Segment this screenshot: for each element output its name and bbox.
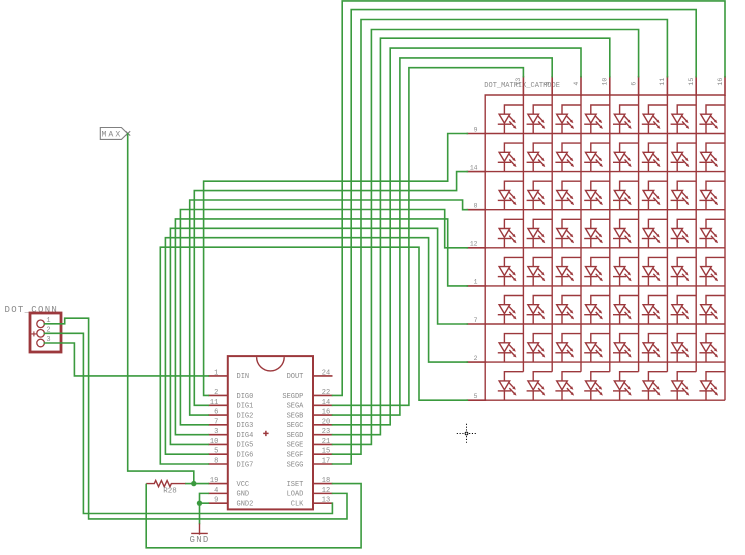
svg-text:SEGF: SEGF <box>287 452 304 460</box>
LED D11 <box>498 105 524 134</box>
LED D37 <box>671 181 697 210</box>
matrix column bus 5 <box>638 95 640 372</box>
matrix column bus 3 <box>580 95 582 372</box>
svg-text:SEGD: SEGD <box>287 432 304 440</box>
wire DIG5 to matrix row 7 <box>170 228 467 444</box>
svg-text:VCC: VCC <box>237 481 250 489</box>
LED D86 <box>642 372 668 401</box>
matrix column pin 3 <box>551 76 553 96</box>
IC pin 20 SEGC <box>313 424 333 426</box>
svg-text:1: 1 <box>474 279 478 286</box>
IC pin 21 SEGE <box>313 443 333 445</box>
LED D13 <box>555 105 581 134</box>
svg-text:CLK: CLK <box>291 500 304 508</box>
svg-text:21: 21 <box>322 438 330 446</box>
matrix row pin 14 <box>467 171 487 173</box>
matrix row pin 8 <box>467 209 487 211</box>
LED D43 <box>555 219 581 248</box>
LED D27 <box>671 143 697 172</box>
svg-text:8: 8 <box>214 458 218 466</box>
IC pin 15 SEGF <box>313 453 333 455</box>
svg-text:MAX: MAX <box>102 131 123 140</box>
IC pin 17 SEGG <box>313 463 333 465</box>
svg-text:24: 24 <box>322 369 330 377</box>
svg-text:DIN: DIN <box>237 373 250 381</box>
IC pin 18 ISET <box>313 483 333 485</box>
IC pin 6 DIG2 <box>208 414 228 416</box>
IC pin 16 SEGB <box>313 414 333 416</box>
svg-text:GND: GND <box>237 491 250 499</box>
LED D21 <box>498 143 524 172</box>
svg-text:13: 13 <box>322 497 330 505</box>
svg-text:SEGDP: SEGDP <box>282 393 303 401</box>
IC pin 4 GND <box>208 492 228 494</box>
LED D57 <box>671 257 697 286</box>
matrix row bus 6 <box>485 323 725 325</box>
svg-text:LOAD: LOAD <box>287 491 304 499</box>
svg-text:5: 5 <box>214 448 218 456</box>
svg-text:DOUT: DOUT <box>287 373 304 381</box>
IC notch <box>257 357 285 371</box>
svg-text:15: 15 <box>688 78 695 86</box>
IC pin 19 VCC <box>208 483 228 485</box>
LED D18 <box>699 105 725 134</box>
matrix column pin 15 <box>695 76 697 96</box>
matrix row bus 2 <box>485 171 725 173</box>
LED D34 <box>584 181 610 210</box>
LED D67 <box>671 296 697 325</box>
svg-text:SEGG: SEGG <box>287 461 304 469</box>
svg-text:2: 2 <box>474 355 478 362</box>
svg-text:19: 19 <box>210 477 218 485</box>
wire DIG2 to matrix row 8 <box>190 200 468 415</box>
wire R28 right to VCC dot <box>186 483 194 485</box>
DOT_CONN pad 1 <box>37 320 45 328</box>
svg-text:DIG7: DIG7 <box>237 461 254 469</box>
svg-text:GND: GND <box>190 535 210 545</box>
IC pin 7 DIG3 <box>208 424 228 426</box>
LED D82 <box>527 372 553 401</box>
LED D62 <box>527 296 553 325</box>
matrix column pin 11 <box>666 76 668 96</box>
ground symbol GND <box>191 524 208 535</box>
svg-text:18: 18 <box>322 477 330 485</box>
matrix column pin 6 <box>638 76 640 96</box>
svg-text:12: 12 <box>470 241 478 248</box>
op IC U1 MAX7219 body <box>228 356 313 509</box>
svg-text:3: 3 <box>214 428 218 436</box>
matrix row bus 7 <box>485 361 725 363</box>
LED D81 <box>498 372 524 401</box>
LED D52 <box>527 257 553 286</box>
LED D28 <box>699 143 725 172</box>
wire DIG7 to matrix row 5 <box>160 247 467 464</box>
IC pin 5 DIG6 <box>208 453 228 455</box>
wire GND net: pin4 to pin9 <box>200 493 209 503</box>
LED D65 <box>613 296 639 325</box>
LED D68 <box>699 296 725 325</box>
LED D63 <box>555 296 581 325</box>
svg-text:9: 9 <box>214 497 218 505</box>
junction dot VCC <box>191 481 196 486</box>
svg-text:2: 2 <box>214 389 218 397</box>
matrix column bus 7 <box>695 95 697 372</box>
svg-text:DIG6: DIG6 <box>237 452 254 460</box>
matrix row bus 8 <box>485 399 725 401</box>
svg-text:DIG1: DIG1 <box>237 403 254 411</box>
wire GND net down to ground symbol <box>199 503 201 523</box>
matrix row pin 7 <box>467 323 487 325</box>
LED D61 <box>498 296 524 325</box>
wire DIG0 to matrix row 9 <box>204 134 468 396</box>
LED D56 <box>642 257 668 286</box>
LED D41 <box>498 219 524 248</box>
wire LOAD net: chip pin12 to DOT_CONN pin1 <box>44 318 347 519</box>
svg-text:12: 12 <box>322 487 330 495</box>
LED D46 <box>642 219 668 248</box>
junction dot GND <box>197 500 202 505</box>
LED D87 <box>671 372 697 401</box>
wire MAX/VCC net <box>128 134 194 484</box>
svg-text:4: 4 <box>214 487 218 495</box>
LED D83 <box>555 372 581 401</box>
resistor R28 <box>146 480 186 486</box>
LED D38 <box>699 181 725 210</box>
LED D85 <box>613 372 639 401</box>
wire DIN net: DOT_CONN pin3 to chip pin1 <box>44 343 208 376</box>
svg-text:14: 14 <box>322 399 330 407</box>
LED D16 <box>642 105 668 134</box>
wire SEG segment 2 to matrix column 3 <box>333 58 553 415</box>
wire SEG segment 1 to matrix column 13 <box>333 68 524 406</box>
IC pin 8 DIG7 <box>208 463 228 465</box>
IC origin cross <box>263 431 268 436</box>
LED D33 <box>555 181 581 210</box>
svg-text:SEGE: SEGE <box>287 442 304 450</box>
LED D26 <box>642 143 668 172</box>
matrix row pin 2 <box>467 361 487 363</box>
LED D58 <box>699 257 725 286</box>
svg-text:5: 5 <box>474 393 478 400</box>
svg-text:6: 6 <box>214 409 218 417</box>
LED D23 <box>555 143 581 172</box>
DOT_CONN pad 3 <box>37 339 45 347</box>
svg-text:6: 6 <box>630 82 637 86</box>
svg-text:SEGA: SEGA <box>287 403 305 411</box>
LED D22 <box>527 143 553 172</box>
matrix row pin 5 <box>467 399 487 401</box>
LED D12 <box>527 105 553 134</box>
wire DIG3 to matrix row 12 <box>180 210 467 425</box>
LED D51 <box>498 257 524 286</box>
svg-text:7: 7 <box>214 418 218 426</box>
wire SEG segment 5 to matrix column 6 <box>333 30 639 445</box>
svg-text:11: 11 <box>659 78 666 86</box>
svg-text:20: 20 <box>322 418 330 426</box>
svg-text:10: 10 <box>602 78 609 86</box>
matrix column pin 4 <box>580 76 582 96</box>
svg-text:10: 10 <box>210 438 218 446</box>
matrix row bus 5 <box>485 285 725 287</box>
svg-text:13: 13 <box>515 78 522 86</box>
svg-text:7: 7 <box>474 317 478 324</box>
net label MAX flag <box>100 128 130 140</box>
LED D35 <box>613 181 639 210</box>
matrix column bus 8 <box>724 95 726 400</box>
LED D44 <box>584 219 610 248</box>
IC pin 13 CLK <box>313 502 333 504</box>
svg-text:23: 23 <box>322 428 330 436</box>
IC pin 12 LOAD <box>313 492 333 494</box>
svg-text:SEGC: SEGC <box>287 422 304 430</box>
IC pin 1 DIN <box>208 375 228 377</box>
LED D25 <box>613 143 639 172</box>
wire SEG segment 7 to matrix column 15 <box>333 10 697 464</box>
svg-text:3: 3 <box>544 82 551 86</box>
matrix row bus 4 <box>485 247 725 249</box>
svg-text:4: 4 <box>573 82 580 86</box>
matrix row pin 12 <box>467 247 487 249</box>
LED D73 <box>555 334 581 363</box>
LED D66 <box>642 296 668 325</box>
LED D45 <box>613 219 639 248</box>
LED D64 <box>584 296 610 325</box>
LED D42 <box>527 219 553 248</box>
svg-text:9: 9 <box>474 126 478 133</box>
LED matrix outline <box>485 95 725 400</box>
wire ISET net: pin18 loop to R28 left <box>146 484 361 548</box>
svg-text:14: 14 <box>470 164 478 171</box>
matrix column pin 10 <box>609 76 611 96</box>
LED D78 <box>699 334 725 363</box>
svg-text:DIG4: DIG4 <box>237 432 254 440</box>
matrix origin crosshair <box>457 424 476 443</box>
LED D14 <box>584 105 610 134</box>
IC pin 22 SEGDP <box>313 394 333 396</box>
LED D15 <box>613 105 639 134</box>
LED D74 <box>584 334 610 363</box>
LED D53 <box>555 257 581 286</box>
matrix column pin 16 <box>724 76 726 96</box>
wire SEG segment 0 to matrix column 16 <box>333 1 726 396</box>
svg-text:GND2: GND2 <box>237 500 254 508</box>
LED D31 <box>498 181 524 210</box>
svg-text:11: 11 <box>210 399 218 407</box>
LED D72 <box>527 334 553 363</box>
svg-text:R28: R28 <box>163 488 177 496</box>
matrix row bus 1 <box>485 133 725 135</box>
IC pin 3 DIG4 <box>208 434 228 436</box>
svg-text:DIG3: DIG3 <box>237 422 254 430</box>
LED D77 <box>671 334 697 363</box>
IC pin 24 DOUT <box>313 375 333 377</box>
LED D48 <box>699 219 725 248</box>
matrix column pin 13 <box>522 76 524 96</box>
IC pin 23 SEGD <box>313 434 333 436</box>
wire DIG1 to matrix row 14 <box>194 172 467 406</box>
matrix column bus 6 <box>666 95 668 372</box>
wire SEG segment 3 to matrix column 4 <box>333 48 582 425</box>
svg-text:1: 1 <box>214 369 218 377</box>
LED D32 <box>527 181 553 210</box>
wire DIG4 to matrix row 1 <box>175 219 467 435</box>
LED D76 <box>642 334 668 363</box>
LED D47 <box>671 219 697 248</box>
svg-text:22: 22 <box>322 389 330 397</box>
svg-text:SEGB: SEGB <box>287 412 304 420</box>
LED D36 <box>642 181 668 210</box>
wire SEG segment 6 to matrix column 11 <box>333 20 668 455</box>
DOT_CONN origin cross <box>31 331 36 336</box>
svg-text:ISET: ISET <box>287 481 304 489</box>
matrix column bus 1 <box>522 95 524 372</box>
svg-text:DIG2: DIG2 <box>237 412 254 420</box>
matrix row pin 1 <box>467 285 487 287</box>
wire SEG segment 4 to matrix column 10 <box>333 38 610 434</box>
svg-text:15: 15 <box>322 448 330 456</box>
matrix row bus 3 <box>485 209 725 211</box>
svg-text:16: 16 <box>717 78 724 86</box>
IC pin 11 DIG1 <box>208 404 228 406</box>
IC pin 10 DIG5 <box>208 443 228 445</box>
IC pin 14 SEGA <box>313 404 333 406</box>
LED D17 <box>671 105 697 134</box>
DOT_CONN pad 2 <box>37 330 45 338</box>
LED D75 <box>613 334 639 363</box>
LED D88 <box>699 372 725 401</box>
svg-text:16: 16 <box>322 409 330 417</box>
connector DOT_CONN body <box>30 313 61 352</box>
svg-text:DIG0: DIG0 <box>237 393 254 401</box>
wire VCC to pin19 <box>194 483 209 485</box>
LED D24 <box>584 143 610 172</box>
matrix column bus 4 <box>609 95 611 372</box>
LED D54 <box>584 257 610 286</box>
LED D55 <box>613 257 639 286</box>
svg-text:17: 17 <box>322 458 330 466</box>
LED D84 <box>584 372 610 401</box>
svg-text:8: 8 <box>474 203 478 210</box>
wire DIG6 to matrix row 2 <box>165 238 467 455</box>
matrix row pin 9 <box>467 133 487 135</box>
svg-text:DIG5: DIG5 <box>237 442 254 450</box>
matrix column bus 2 <box>551 95 553 372</box>
wire CLK net: chip pin13 to DOT_CONN pin2 <box>44 333 332 513</box>
IC pin 9 GND2 <box>208 502 228 504</box>
LED D71 <box>498 334 524 363</box>
IC pin 2 DIG0 <box>208 394 228 396</box>
